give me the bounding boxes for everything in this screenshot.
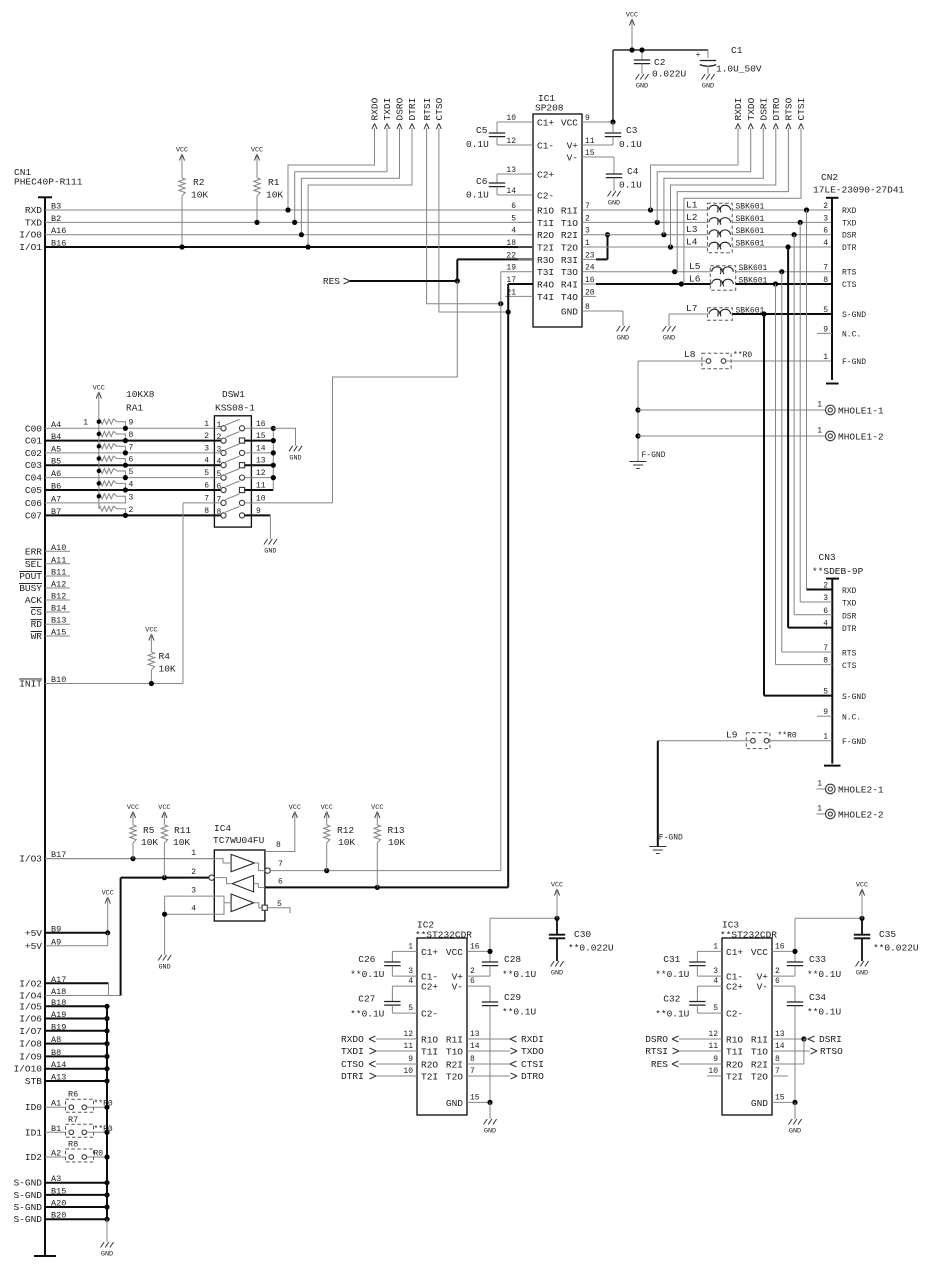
wire L1 out bbox=[732, 209, 832, 211]
svg-text:+5V: +5V bbox=[25, 941, 42, 952]
junction bbox=[299, 232, 304, 237]
svg-text:6: 6 bbox=[511, 202, 516, 211]
svg-text:L4: L4 bbox=[686, 237, 698, 248]
svg-text:T1O: T1O bbox=[751, 1047, 768, 1058]
svg-text:**ST232CDR: **ST232CDR bbox=[415, 930, 472, 941]
svg-text:10K: 10K bbox=[159, 664, 176, 675]
svg-text:1: 1 bbox=[191, 849, 196, 858]
junction bbox=[506, 309, 511, 314]
junction bbox=[487, 1100, 492, 1105]
junction bbox=[773, 281, 778, 286]
resistor R5 bbox=[130, 825, 136, 843]
resistor R2 bbox=[179, 178, 185, 196]
wire IC3 VCC rail bbox=[795, 917, 862, 919]
svg-text:I/O5: I/O5 bbox=[19, 1001, 42, 1012]
svg-text:GND: GND bbox=[663, 335, 675, 343]
svg-text:C3: C3 bbox=[626, 125, 638, 136]
svg-text:SP208: SP208 bbox=[535, 103, 564, 114]
svg-text:TXD: TXD bbox=[842, 600, 857, 609]
svg-text:T1I: T1I bbox=[537, 218, 554, 229]
ground (IC1) bbox=[617, 326, 630, 332]
junction bbox=[123, 475, 128, 480]
svg-text:DTRO: DTRO bbox=[521, 1071, 544, 1082]
wire CTS riser to CN3 bbox=[775, 284, 777, 665]
svg-text:R1I: R1I bbox=[751, 1035, 768, 1046]
ground (IC2) bbox=[484, 1119, 497, 1125]
junction bbox=[97, 456, 101, 460]
svg-text:RTS: RTS bbox=[842, 269, 857, 278]
svg-text:18: 18 bbox=[506, 239, 516, 248]
wire I/O2 join bbox=[108, 983, 110, 995]
IC1 pin 20 T4O bbox=[582, 295, 596, 297]
junction bbox=[798, 220, 803, 225]
junction bbox=[761, 311, 766, 316]
svg-text:T2I: T2I bbox=[421, 1072, 438, 1083]
svg-text:INIT: INIT bbox=[19, 679, 42, 690]
IC1 pin 17 R4O bbox=[518, 283, 533, 285]
svg-text:IC4: IC4 bbox=[214, 823, 231, 834]
svg-text:I/O7: I/O7 bbox=[19, 1026, 42, 1037]
junction bbox=[285, 207, 290, 212]
svg-text:8: 8 bbox=[204, 507, 209, 516]
wire L3 out bbox=[732, 234, 832, 236]
svg-text:C30: C30 bbox=[574, 929, 591, 940]
capacitor C32 bbox=[697, 985, 722, 987]
svg-text:4: 4 bbox=[408, 977, 413, 986]
svg-text:I/O9: I/O9 bbox=[19, 1051, 42, 1062]
wire F-GND net bbox=[637, 361, 639, 462]
svg-text:**0.1U: **0.1U bbox=[807, 1007, 842, 1018]
wire L2 out bbox=[732, 221, 832, 223]
svg-text:1: 1 bbox=[83, 419, 88, 428]
svg-text:ID1: ID1 bbox=[25, 1127, 42, 1138]
svg-text:GND: GND bbox=[158, 964, 170, 972]
svg-text:16: 16 bbox=[585, 276, 595, 285]
svg-text:C04: C04 bbox=[25, 473, 42, 484]
svg-text:5: 5 bbox=[713, 1004, 718, 1013]
svg-text:T1O: T1O bbox=[446, 1047, 463, 1058]
svg-text:+: + bbox=[696, 51, 701, 60]
svg-text:GND: GND bbox=[561, 307, 578, 318]
svg-text:F-GND: F-GND bbox=[842, 738, 866, 747]
junction bbox=[629, 47, 634, 52]
svg-text:R4I: R4I bbox=[561, 280, 578, 291]
svg-text:**0.1U: **0.1U bbox=[502, 1007, 537, 1018]
wire R4O bbox=[508, 283, 533, 285]
svg-text:9: 9 bbox=[129, 419, 134, 428]
svg-text:7: 7 bbox=[775, 1067, 780, 1076]
svg-text:1: 1 bbox=[817, 427, 822, 436]
svg-text:RXD: RXD bbox=[842, 587, 857, 596]
svg-text:L9: L9 bbox=[726, 730, 738, 741]
junction bbox=[149, 681, 154, 686]
svg-text:C2-: C2- bbox=[537, 191, 554, 202]
svg-text:I/O10: I/O10 bbox=[13, 1064, 42, 1075]
svg-text:GND: GND bbox=[289, 454, 301, 462]
IC1 pin 22 R3O bbox=[518, 258, 533, 260]
svg-text:C35: C35 bbox=[879, 929, 896, 940]
resistor R1 bbox=[254, 178, 260, 196]
svg-text:N.C.: N.C. bbox=[842, 330, 861, 339]
wire R3I to R2I bbox=[596, 258, 608, 260]
svg-text:RTSI: RTSI bbox=[645, 1046, 668, 1057]
junction bbox=[498, 301, 503, 306]
svg-text:TXDO: TXDO bbox=[521, 1046, 544, 1057]
IC1 pin 10 C1+ bbox=[518, 121, 533, 123]
wire DTR riser to CN3 bbox=[787, 247, 789, 628]
svg-text:R2: R2 bbox=[193, 177, 205, 188]
svg-text:R2I: R2I bbox=[751, 1060, 768, 1071]
svg-text:ERR: ERR bbox=[25, 546, 42, 557]
IC1 pin 7 R1I bbox=[582, 209, 596, 211]
svg-text:CN3: CN3 bbox=[819, 552, 836, 563]
junction bbox=[97, 432, 101, 436]
junction bbox=[271, 426, 276, 431]
svg-text:S-GND: S-GND bbox=[842, 693, 866, 702]
svg-text:7: 7 bbox=[204, 494, 209, 503]
junction bbox=[104, 1004, 109, 1009]
IC1 pin 11 V+ bbox=[582, 144, 596, 146]
svg-text:5: 5 bbox=[511, 214, 516, 223]
svg-text:F-GND: F-GND bbox=[659, 834, 683, 843]
wire RES bbox=[350, 280, 457, 282]
svg-text:S-GND: S-GND bbox=[13, 1214, 42, 1225]
wire TXD riser to CN3 bbox=[799, 222, 801, 602]
junction bbox=[97, 469, 101, 473]
net label CTSI (IC2 right) bbox=[467, 1063, 510, 1065]
svg-text:MHOLE2-2: MHOLE2-2 bbox=[838, 810, 884, 821]
junction bbox=[661, 232, 666, 237]
svg-text:C2+: C2+ bbox=[421, 982, 438, 993]
junction bbox=[292, 220, 297, 225]
svg-text:**0.022U: **0.022U bbox=[873, 943, 919, 954]
svg-text:VCC: VCC bbox=[127, 804, 139, 812]
svg-text:S-GND: S-GND bbox=[13, 1190, 42, 1201]
svg-text:DTR: DTR bbox=[842, 244, 857, 253]
svg-text:ID0: ID0 bbox=[25, 1102, 42, 1113]
ground (L7) bbox=[663, 326, 676, 332]
net label RXDI (IC2 right) bbox=[467, 1038, 510, 1040]
svg-text:13: 13 bbox=[470, 1030, 480, 1039]
svg-text:RD: RD bbox=[31, 619, 43, 630]
junction bbox=[104, 1066, 109, 1071]
svg-text:2: 2 bbox=[470, 967, 475, 976]
capacitor C5 bbox=[497, 121, 518, 123]
svg-text:13: 13 bbox=[775, 1030, 785, 1039]
svg-text:T1O: T1O bbox=[561, 218, 578, 229]
junction bbox=[487, 949, 492, 954]
ground (C30) bbox=[551, 961, 564, 967]
IC1 pin 23 R3I bbox=[582, 258, 596, 260]
svg-text:T2O: T2O bbox=[751, 1072, 768, 1083]
svg-text:12: 12 bbox=[708, 1030, 718, 1039]
svg-text:R4O: R4O bbox=[537, 280, 554, 291]
wire L9 right bbox=[769, 740, 833, 742]
svg-text:2: 2 bbox=[129, 506, 134, 515]
wire L5 out bbox=[736, 271, 832, 273]
svg-text:10K: 10K bbox=[173, 837, 190, 848]
svg-text:L6: L6 bbox=[689, 274, 701, 285]
junction bbox=[639, 47, 644, 52]
svg-text:RTSO: RTSO bbox=[784, 97, 795, 120]
svg-text:R1O: R1O bbox=[421, 1035, 438, 1046]
svg-text:RXDI: RXDI bbox=[733, 98, 744, 121]
svg-text:4: 4 bbox=[129, 480, 134, 489]
junction bbox=[104, 1105, 109, 1110]
svg-text:CTSI: CTSI bbox=[521, 1059, 544, 1070]
svg-text:5: 5 bbox=[129, 468, 134, 477]
wire IC3 VCC bbox=[772, 950, 795, 952]
wire R1I to L1 bbox=[596, 209, 708, 211]
svg-text:I/O8: I/O8 bbox=[19, 1039, 42, 1050]
ground (IC4 unused inputs) bbox=[158, 955, 171, 961]
IC1 pin 9 VCC bbox=[582, 121, 596, 123]
net label DTRO (IC2 right) bbox=[467, 1075, 510, 1077]
svg-text:C1-: C1- bbox=[537, 141, 554, 152]
junction bbox=[672, 269, 677, 274]
svg-text:15: 15 bbox=[775, 1093, 785, 1102]
svg-text:14: 14 bbox=[470, 1042, 480, 1051]
IC1 pin 24 T3O bbox=[582, 271, 596, 273]
junction bbox=[792, 949, 797, 954]
wire T3I bbox=[501, 271, 518, 273]
wire DTRO bbox=[671, 128, 776, 247]
svg-text:T4I: T4I bbox=[537, 292, 554, 303]
svg-text:C1+: C1+ bbox=[421, 947, 438, 958]
svg-text:1: 1 bbox=[817, 401, 822, 410]
IC1 pin 21 T4I bbox=[505, 295, 533, 297]
svg-text:VCC: VCC bbox=[145, 627, 157, 635]
svg-text:0.1U: 0.1U bbox=[466, 139, 489, 150]
wire RXDO bbox=[288, 128, 375, 210]
svg-text:C2+: C2+ bbox=[726, 982, 743, 993]
svg-text:T2O: T2O bbox=[446, 1072, 463, 1083]
junction bbox=[104, 1192, 109, 1197]
svg-text:+5V: +5V bbox=[25, 928, 42, 939]
IC1 pin 4 R2O bbox=[518, 234, 533, 236]
svg-text:6: 6 bbox=[204, 482, 209, 491]
svg-text:0.1U: 0.1U bbox=[466, 190, 489, 201]
svg-text:8: 8 bbox=[129, 431, 134, 440]
svg-text:**0.1U: **0.1U bbox=[502, 969, 537, 980]
svg-text:**0.1U: **0.1U bbox=[350, 969, 385, 980]
svg-text:15: 15 bbox=[470, 1093, 480, 1102]
resistor RA1 element 7 bbox=[99, 444, 117, 449]
svg-text:RXD: RXD bbox=[25, 205, 42, 216]
svg-text:C1: C1 bbox=[731, 45, 743, 56]
svg-text:C02: C02 bbox=[25, 448, 42, 459]
junction bbox=[375, 885, 380, 890]
wire DTRI bbox=[308, 128, 412, 247]
svg-text:GND: GND bbox=[551, 970, 563, 978]
capacitor C33 bbox=[787, 961, 803, 963]
wire L8 left bbox=[638, 360, 706, 362]
capacitor C4 bbox=[596, 156, 614, 158]
net label DSRI (IC3 right) bbox=[772, 1038, 804, 1040]
resistor RA1 element 6 bbox=[99, 456, 117, 461]
junction bbox=[104, 1130, 109, 1135]
svg-text:**R0: **R0 bbox=[94, 1125, 113, 1134]
svg-text:VCC: VCC bbox=[551, 882, 563, 890]
svg-text:5: 5 bbox=[408, 1004, 413, 1013]
svg-text:RA1: RA1 bbox=[126, 403, 143, 414]
wire R4I to L6 bbox=[596, 283, 711, 285]
svg-text:RXDO: RXDO bbox=[370, 97, 381, 120]
svg-text:1.0U_50V: 1.0U_50V bbox=[716, 64, 762, 75]
capacitor C29 bbox=[467, 985, 490, 987]
IC3 pin 10 stub bbox=[707, 1075, 722, 1077]
ground (C2) bbox=[636, 74, 649, 80]
junction bbox=[271, 450, 276, 455]
wire GND bus CN1 bottom bbox=[106, 1006, 108, 1219]
capacitor C2 bbox=[641, 50, 643, 60]
svg-text:7: 7 bbox=[278, 860, 283, 869]
junction bbox=[123, 463, 128, 468]
wire VCC rail bbox=[596, 121, 613, 123]
svg-text:L7: L7 bbox=[686, 303, 697, 314]
svg-text:I/O3: I/O3 bbox=[19, 854, 42, 865]
IC1 pin 15 V- bbox=[582, 156, 596, 158]
svg-text:3: 3 bbox=[129, 493, 134, 502]
svg-text:DSW1: DSW1 bbox=[222, 389, 245, 400]
ground (C35) bbox=[856, 961, 869, 967]
svg-text:R1I: R1I bbox=[446, 1035, 463, 1046]
inverter gate B (IC4) bbox=[232, 875, 253, 892]
wire CTSO riser to IC4 bbox=[507, 312, 509, 887]
resistor RA1 element 8 bbox=[99, 431, 117, 436]
svg-text:VCC: VCC bbox=[102, 890, 114, 898]
wire TXDO bbox=[657, 128, 751, 222]
svg-text:C00: C00 bbox=[25, 423, 42, 434]
svg-text:TXDI: TXDI bbox=[382, 98, 393, 121]
svg-text:1: 1 bbox=[823, 353, 828, 362]
svg-text:C32: C32 bbox=[663, 994, 680, 1005]
svg-text:R3O: R3O bbox=[537, 255, 554, 266]
junction bbox=[610, 119, 615, 124]
svg-text:10K: 10K bbox=[388, 837, 405, 848]
resistor R4 bbox=[148, 652, 154, 670]
svg-text:R12: R12 bbox=[337, 825, 354, 836]
svg-text:RXDI: RXDI bbox=[521, 1034, 544, 1045]
svg-text:11: 11 bbox=[708, 1042, 718, 1051]
ground CN1 bottom bbox=[101, 1242, 114, 1248]
svg-text:GND: GND bbox=[636, 83, 648, 91]
wire RXDI bbox=[651, 128, 739, 210]
svg-text:CTSI: CTSI bbox=[796, 98, 807, 121]
svg-text:RXD: RXD bbox=[842, 207, 857, 216]
wire T3O to L5 bbox=[596, 271, 711, 273]
capacitor C28 bbox=[482, 961, 498, 963]
svg-text:6: 6 bbox=[278, 878, 283, 887]
svg-text:2: 2 bbox=[585, 214, 590, 223]
svg-text:5: 5 bbox=[204, 469, 209, 478]
svg-text:DTRI: DTRI bbox=[341, 1071, 364, 1082]
junction bbox=[554, 916, 559, 921]
svg-text:C5: C5 bbox=[476, 125, 488, 136]
junction bbox=[104, 1016, 109, 1021]
svg-text:R3I: R3I bbox=[561, 255, 578, 266]
svg-text:6: 6 bbox=[823, 227, 828, 236]
svg-text:DTRI: DTRI bbox=[407, 98, 418, 121]
net label TXDO (IC2 right) bbox=[467, 1050, 510, 1052]
svg-text:3: 3 bbox=[408, 967, 413, 976]
svg-text:16: 16 bbox=[256, 420, 266, 429]
wire IC4 pin2 to I/O4 bbox=[120, 878, 122, 996]
junction bbox=[668, 244, 673, 249]
svg-text:GND: GND bbox=[789, 1128, 801, 1136]
svg-text:KSS08-1: KSS08-1 bbox=[215, 403, 255, 414]
capacitor C26 bbox=[392, 950, 417, 952]
inverter gate A (IC4) bbox=[231, 854, 254, 871]
junction bbox=[104, 1154, 109, 1159]
IC1 pin 13 C2+ bbox=[518, 173, 533, 175]
wire L8 to CN2 F-GND bbox=[726, 360, 832, 362]
svg-text:14: 14 bbox=[256, 444, 266, 453]
junction bbox=[104, 1180, 109, 1185]
svg-text:T2O: T2O bbox=[561, 243, 578, 254]
svg-text:4: 4 bbox=[823, 239, 828, 248]
svg-text:C33: C33 bbox=[809, 954, 826, 965]
svg-text:MHOLE2-1: MHOLE2-1 bbox=[838, 785, 884, 796]
svg-text:CTS: CTS bbox=[842, 662, 857, 671]
svg-text:10: 10 bbox=[256, 494, 266, 503]
capacitor C35 bbox=[861, 918, 863, 934]
svg-text:10K: 10K bbox=[191, 190, 208, 201]
svg-text:WR: WR bbox=[31, 631, 43, 642]
svg-text:**ST232CDR: **ST232CDR bbox=[720, 930, 777, 941]
svg-text:8: 8 bbox=[775, 1055, 780, 1064]
svg-text:VCC: VCC bbox=[321, 804, 333, 812]
svg-text:CTSO: CTSO bbox=[341, 1059, 364, 1070]
svg-text:23: 23 bbox=[585, 251, 595, 260]
svg-text:R1: R1 bbox=[268, 177, 280, 188]
svg-text:T2I: T2I bbox=[537, 243, 554, 254]
svg-text:10K: 10K bbox=[338, 837, 355, 848]
wire S-GND riser to CN3 bbox=[763, 314, 765, 696]
svg-text:C26: C26 bbox=[358, 954, 375, 965]
svg-text:16: 16 bbox=[470, 942, 480, 951]
svg-text:C34: C34 bbox=[809, 992, 826, 1003]
svg-text:**R0: **R0 bbox=[94, 1100, 113, 1109]
svg-text:1: 1 bbox=[204, 420, 209, 429]
wire IC3 GND bbox=[772, 1101, 795, 1103]
svg-text:TXD: TXD bbox=[842, 219, 857, 228]
svg-text:VCC: VCC bbox=[158, 804, 170, 812]
svg-text:S-GND: S-GND bbox=[13, 1178, 42, 1189]
svg-text:CN2: CN2 bbox=[821, 172, 838, 183]
svg-text:R7: R7 bbox=[68, 1115, 78, 1125]
svg-text:VCC: VCC bbox=[93, 385, 105, 393]
svg-text:**0.1U: **0.1U bbox=[807, 969, 842, 980]
svg-text:L3: L3 bbox=[686, 224, 698, 235]
svg-text:2: 2 bbox=[823, 202, 828, 211]
svg-text:TXDO: TXDO bbox=[746, 97, 757, 120]
wire RES to DSW pin10 bbox=[456, 281, 458, 377]
junction bbox=[104, 1217, 109, 1222]
resistor R11 bbox=[161, 825, 167, 843]
svg-text:10K: 10K bbox=[141, 837, 158, 848]
capacitor C30 bbox=[556, 918, 558, 934]
svg-text:10: 10 bbox=[403, 1067, 413, 1076]
junction bbox=[179, 244, 184, 249]
svg-text:GND: GND bbox=[856, 970, 868, 978]
wire RTSI bbox=[427, 128, 501, 304]
svg-text:10K: 10K bbox=[266, 190, 283, 201]
svg-text:L2: L2 bbox=[686, 212, 698, 223]
wire RES to R3O bbox=[456, 259, 458, 281]
IC1 pin 2 T1O bbox=[582, 221, 596, 223]
filter block L1-L4 bbox=[707, 203, 732, 253]
